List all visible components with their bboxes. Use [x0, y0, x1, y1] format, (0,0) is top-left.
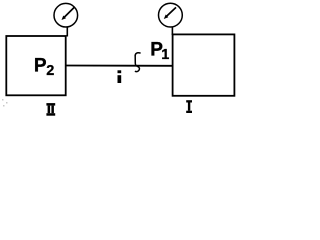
gauge G1 needle	[167, 7, 176, 16]
svg-text:1: 1	[161, 47, 169, 63]
scan speckles bottom-left	[2, 99, 8, 107]
gauge G1 dial	[159, 3, 183, 27]
gauge G2 stem	[66, 27, 68, 37]
numeral I under right box	[186, 100, 192, 113]
gauge G2 dial	[54, 3, 78, 27]
container I (box P1)	[173, 34, 235, 95]
wire	[66, 65, 173, 67]
break squiggle on wire	[135, 53, 141, 72]
gauge G2 needle	[65, 7, 75, 17]
container II (box P2)	[6, 36, 65, 95]
label i (current)	[118, 70, 122, 83]
svg-text:P: P	[34, 55, 47, 76]
numeral II under left box	[46, 103, 55, 116]
svg-text:2: 2	[46, 63, 54, 79]
gauge G1 stem	[171, 27, 173, 35]
